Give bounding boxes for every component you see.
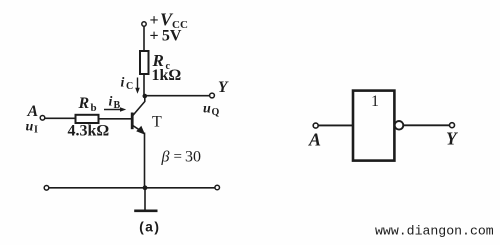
svg-text:30: 30 bbox=[185, 149, 201, 166]
svg-text:R: R bbox=[78, 95, 90, 112]
svg-text:www.diangon.com: www.diangon.com bbox=[375, 224, 494, 239]
svg-text:B: B bbox=[114, 100, 121, 111]
svg-text:A: A bbox=[308, 130, 321, 150]
svg-text:β: β bbox=[161, 149, 170, 166]
svg-text:C: C bbox=[126, 81, 133, 92]
svg-text:b: b bbox=[91, 102, 97, 114]
svg-text:Q: Q bbox=[212, 107, 220, 118]
svg-text:1kΩ: 1kΩ bbox=[152, 67, 182, 84]
svg-text:i: i bbox=[121, 76, 125, 91]
svg-text:i: i bbox=[109, 95, 113, 110]
svg-text:(a): (a) bbox=[138, 221, 160, 237]
svg-text:I: I bbox=[34, 125, 38, 136]
svg-text:4.3kΩ: 4.3kΩ bbox=[68, 123, 110, 140]
svg-text:u: u bbox=[26, 120, 34, 135]
svg-text:T: T bbox=[152, 114, 162, 131]
svg-text:=: = bbox=[174, 149, 182, 165]
svg-text:1: 1 bbox=[371, 93, 379, 110]
svg-text:A: A bbox=[27, 103, 39, 120]
svg-text:u: u bbox=[203, 102, 211, 117]
svg-text:+: + bbox=[150, 12, 159, 29]
svg-text:Y: Y bbox=[218, 79, 229, 96]
svg-text:+ 5V: + 5V bbox=[150, 28, 182, 45]
